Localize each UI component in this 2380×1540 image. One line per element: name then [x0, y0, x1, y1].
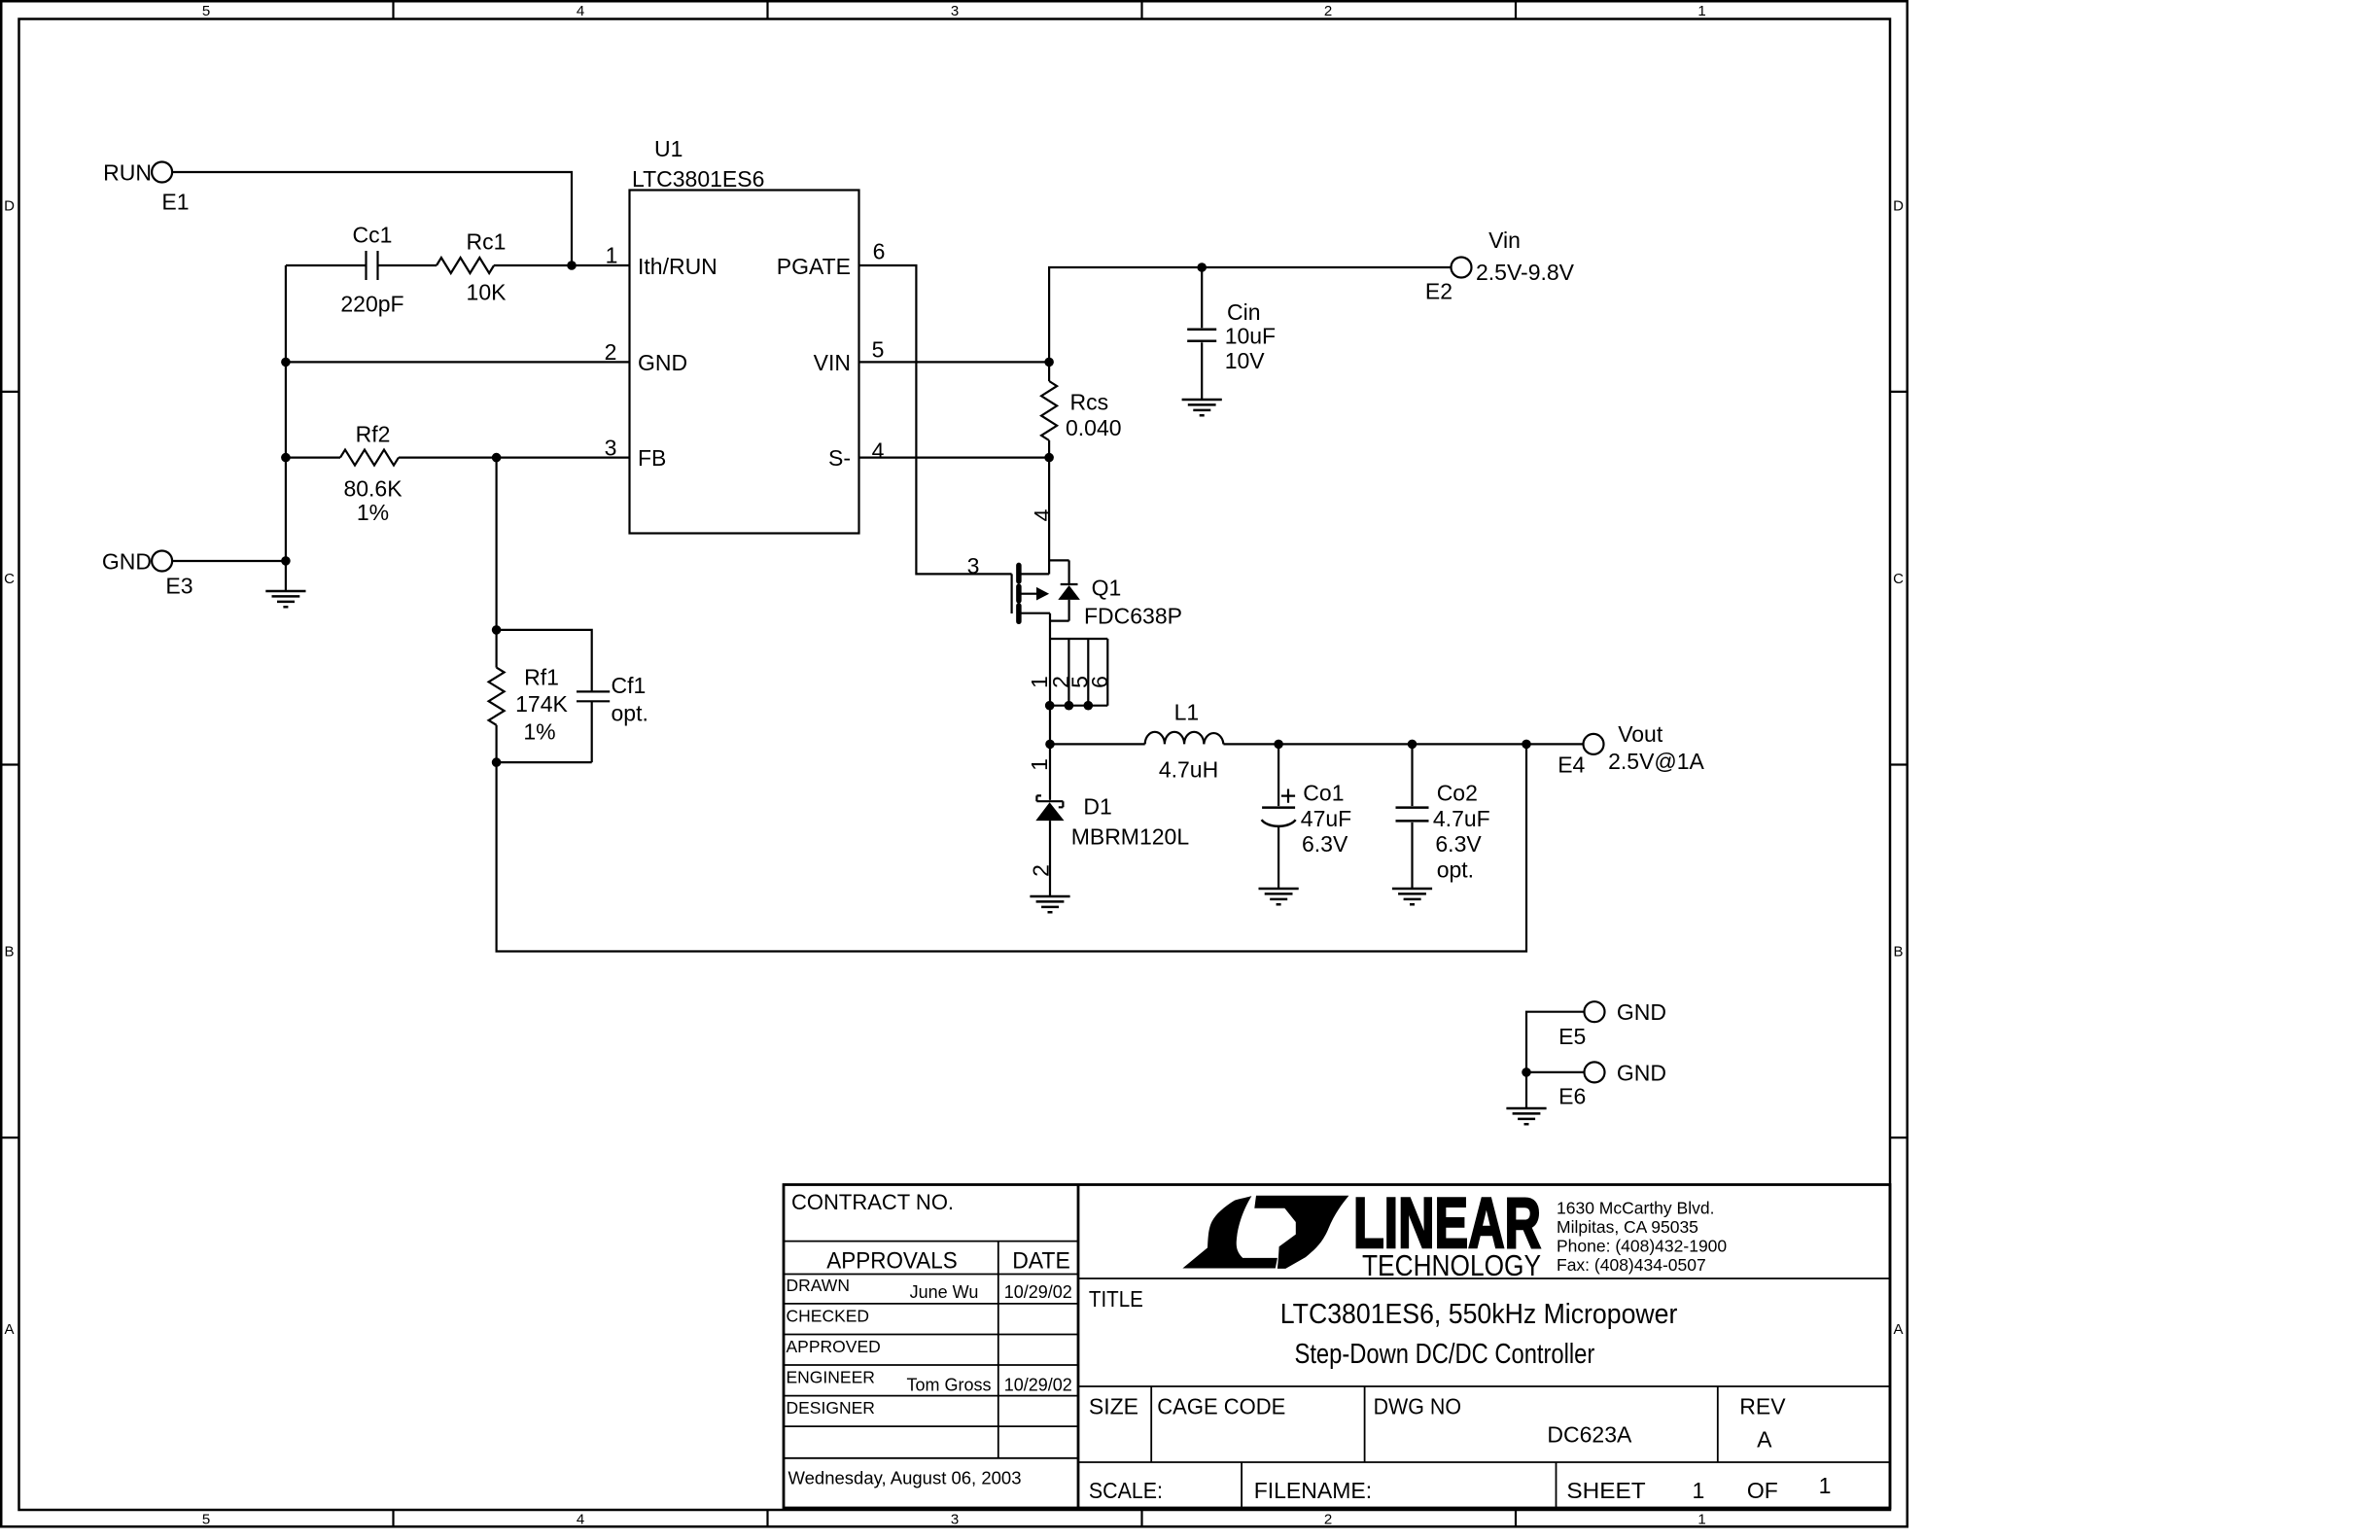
- svg-text:Co1: Co1: [1303, 780, 1344, 805]
- svg-text:4: 4: [577, 1512, 584, 1528]
- svg-text:LTC3801ES6: LTC3801ES6: [632, 166, 764, 192]
- svg-text:C: C: [1893, 571, 1904, 587]
- svg-text:E1: E1: [161, 189, 189, 214]
- svg-text:2.5V-9.8V: 2.5V-9.8V: [1476, 260, 1575, 285]
- svg-text:GND: GND: [1617, 999, 1666, 1025]
- svg-text:Rc1: Rc1: [467, 228, 507, 254]
- svg-text:SHEET: SHEET: [1566, 1478, 1645, 1503]
- svg-text:0.040: 0.040: [1066, 415, 1122, 440]
- svg-text:B: B: [1893, 944, 1903, 961]
- svg-text:TITLE: TITLE: [1089, 1286, 1143, 1312]
- svg-text:E4: E4: [1557, 752, 1585, 777]
- svg-text:1: 1: [1693, 1478, 1705, 1503]
- svg-text:SCALE:: SCALE:: [1089, 1478, 1163, 1503]
- svg-text:4: 4: [872, 437, 885, 463]
- svg-text:OF: OF: [1747, 1478, 1778, 1503]
- svg-text:FILENAME:: FILENAME:: [1254, 1478, 1372, 1503]
- svg-text:1: 1: [1819, 1473, 1832, 1498]
- svg-text:GND: GND: [102, 548, 152, 574]
- svg-text:ENGINEER: ENGINEER: [787, 1368, 875, 1387]
- svg-text:Milpitas, CA 95035: Milpitas, CA 95035: [1557, 1217, 1698, 1237]
- svg-text:6: 6: [1087, 676, 1112, 688]
- svg-text:Co2: Co2: [1437, 780, 1478, 805]
- svg-text:CAGE CODE: CAGE CODE: [1157, 1393, 1285, 1418]
- svg-text:Ith/RUN: Ith/RUN: [638, 254, 717, 279]
- svg-text:SIZE: SIZE: [1089, 1393, 1138, 1418]
- svg-text:1630 McCarthy Blvd.: 1630 McCarthy Blvd.: [1557, 1199, 1714, 1218]
- svg-text:FB: FB: [638, 445, 666, 471]
- svg-text:RUN: RUN: [103, 159, 152, 185]
- svg-text:DESIGNER: DESIGNER: [787, 1398, 875, 1417]
- svg-text:APPROVALS: APPROVALS: [826, 1248, 957, 1275]
- svg-text:A: A: [1757, 1427, 1772, 1452]
- svg-text:3: 3: [951, 3, 959, 19]
- svg-text:Phone: (408)432-1900: Phone: (408)432-1900: [1557, 1237, 1727, 1256]
- svg-text:TECHNOLOGY: TECHNOLOGY: [1362, 1248, 1541, 1282]
- svg-text:5: 5: [202, 3, 210, 19]
- svg-text:U1: U1: [654, 136, 682, 161]
- svg-text:S-: S-: [828, 445, 851, 471]
- svg-text:2: 2: [1324, 3, 1332, 19]
- svg-text:E5: E5: [1558, 1024, 1586, 1049]
- svg-text:Rf2: Rf2: [356, 421, 391, 446]
- svg-text:Vout: Vout: [1618, 721, 1663, 747]
- svg-text:Step-Down DC/DC Controller: Step-Down DC/DC Controller: [1295, 1339, 1595, 1370]
- svg-text:A: A: [1893, 1321, 1903, 1338]
- svg-text:D1: D1: [1083, 793, 1111, 819]
- svg-text:REV: REV: [1739, 1393, 1786, 1418]
- svg-text:4.7uH: 4.7uH: [1159, 756, 1218, 782]
- svg-text:10/29/02: 10/29/02: [1004, 1282, 1072, 1302]
- svg-text:1: 1: [606, 242, 618, 267]
- svg-text:VIN: VIN: [814, 350, 851, 375]
- svg-text:80.6K: 80.6K: [343, 475, 402, 501]
- svg-text:3: 3: [967, 553, 980, 578]
- svg-text:1: 1: [1697, 1512, 1705, 1528]
- svg-text:CONTRACT NO.: CONTRACT NO.: [791, 1190, 954, 1214]
- svg-text:E3: E3: [165, 573, 192, 598]
- svg-text:opt.: opt.: [612, 700, 648, 725]
- svg-text:1: 1: [1027, 758, 1052, 771]
- svg-text:E2: E2: [1425, 278, 1452, 303]
- svg-text:Rcs: Rcs: [1070, 390, 1109, 415]
- svg-text:DWG NO: DWG NO: [1374, 1393, 1461, 1418]
- svg-text:10/29/02: 10/29/02: [1004, 1376, 1072, 1395]
- svg-text:PGATE: PGATE: [777, 254, 851, 279]
- svg-text:4: 4: [577, 3, 584, 19]
- svg-text:A: A: [4, 1321, 14, 1338]
- svg-text:C: C: [4, 571, 15, 587]
- svg-text:5: 5: [202, 1512, 210, 1528]
- svg-text:B: B: [4, 944, 14, 961]
- svg-text:GND: GND: [638, 350, 687, 375]
- svg-text:CHECKED: CHECKED: [787, 1307, 870, 1326]
- svg-text:2: 2: [1028, 864, 1053, 877]
- svg-text:E6: E6: [1558, 1084, 1586, 1109]
- svg-text:4: 4: [1030, 508, 1055, 521]
- svg-text:Fax: (408)434-0507: Fax: (408)434-0507: [1557, 1255, 1706, 1275]
- svg-text:Wednesday, August 06, 2003: Wednesday, August 06, 2003: [788, 1468, 1022, 1488]
- svg-text:Cin: Cin: [1227, 299, 1261, 325]
- svg-text:6.3V: 6.3V: [1435, 831, 1482, 857]
- svg-text:DRAWN: DRAWN: [787, 1276, 850, 1295]
- svg-text:Q1: Q1: [1092, 576, 1122, 601]
- svg-text:2: 2: [605, 339, 617, 365]
- svg-text:DATE: DATE: [1012, 1248, 1070, 1275]
- svg-text:47uF: 47uF: [1301, 806, 1351, 831]
- svg-text:3: 3: [951, 1512, 959, 1528]
- svg-text:GND: GND: [1617, 1060, 1666, 1085]
- svg-text:10V: 10V: [1225, 348, 1266, 373]
- svg-text:Vin: Vin: [1488, 227, 1521, 253]
- svg-text:DC623A: DC623A: [1547, 1421, 1632, 1447]
- svg-text:opt.: opt.: [1437, 857, 1474, 883]
- svg-text:4.7uF: 4.7uF: [1433, 806, 1490, 831]
- svg-text:6.3V: 6.3V: [1302, 831, 1348, 857]
- svg-text:June Wu: June Wu: [910, 1282, 979, 1302]
- svg-text:Rf1: Rf1: [524, 664, 559, 689]
- svg-text:Tom Gross: Tom Gross: [906, 1376, 991, 1395]
- svg-text:LTC3801ES6, 550kHz Micropower: LTC3801ES6, 550kHz Micropower: [1280, 1299, 1678, 1330]
- svg-text:10uF: 10uF: [1225, 323, 1276, 348]
- svg-text:Cf1: Cf1: [612, 673, 647, 698]
- svg-text:2.5V@1A: 2.5V@1A: [1608, 749, 1704, 774]
- svg-text:10K: 10K: [467, 279, 507, 304]
- svg-text:220pF: 220pF: [340, 291, 403, 316]
- svg-text:FDC638P: FDC638P: [1084, 604, 1182, 629]
- svg-text:Cc1: Cc1: [353, 222, 393, 247]
- svg-text:174K: 174K: [515, 691, 568, 717]
- svg-text:5: 5: [872, 336, 885, 362]
- svg-text:L1: L1: [1174, 699, 1200, 724]
- svg-text:APPROVED: APPROVED: [787, 1337, 881, 1356]
- svg-text:1%: 1%: [523, 718, 555, 744]
- svg-text:1%: 1%: [357, 500, 389, 525]
- svg-text:2: 2: [1324, 1512, 1332, 1528]
- svg-text:6: 6: [873, 238, 886, 263]
- svg-text:1: 1: [1697, 3, 1705, 19]
- svg-text:D: D: [1893, 198, 1904, 215]
- svg-text:D: D: [4, 198, 15, 215]
- svg-text:MBRM120L: MBRM120L: [1071, 823, 1190, 849]
